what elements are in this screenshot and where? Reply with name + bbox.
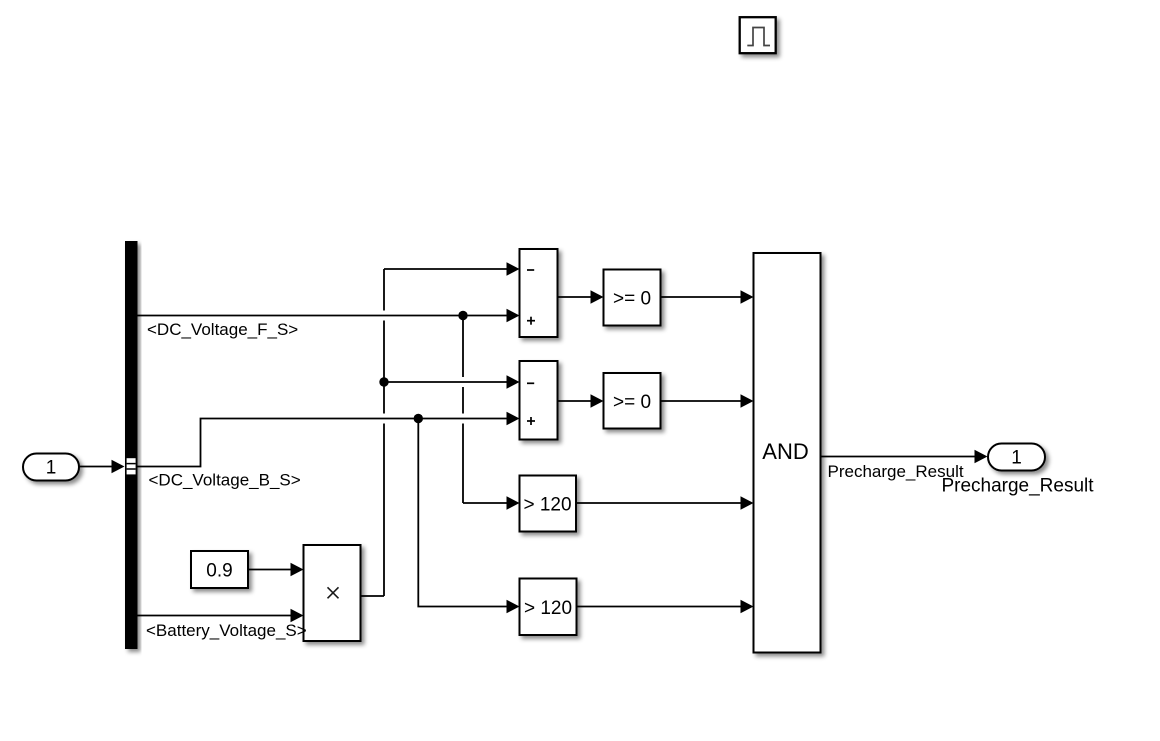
svg-text:<DC_Voltage_B_S>: <DC_Voltage_B_S> xyxy=(149,471,301,490)
svg-text:> 120: > 120 xyxy=(523,495,571,516)
svg-text:Precharge_Result: Precharge_Result xyxy=(941,476,1094,497)
svg-text:1: 1 xyxy=(1011,448,1022,469)
svg-text:1: 1 xyxy=(46,458,57,479)
svg-text:>= 0: >= 0 xyxy=(613,392,651,413)
svg-text:> 120: > 120 xyxy=(524,598,572,619)
svg-text:<Battery_Voltage_S>: <Battery_Voltage_S> xyxy=(146,621,307,640)
svg-text:>= 0: >= 0 xyxy=(613,289,651,310)
svg-text:<DC_Voltage_F_S>: <DC_Voltage_F_S> xyxy=(147,320,298,339)
svg-text:0.9: 0.9 xyxy=(206,561,232,582)
svg-text:AND: AND xyxy=(762,439,808,464)
